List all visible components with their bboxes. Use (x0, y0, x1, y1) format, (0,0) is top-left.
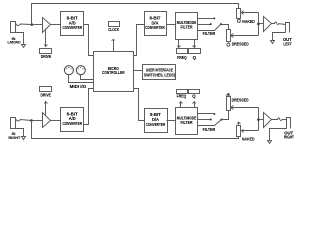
potentiometer DRESSED (top) (227, 30, 249, 47)
block U5 USER INTERFACE SWITCHES LEDS (143, 65, 176, 80)
wire ADC2 to micro (84, 89, 94, 125)
block U2 MICRO CONTROLLER (94, 52, 134, 92)
op-amp A1 (input amp L) (43, 18, 51, 33)
wire DAC1 to filter1 (167, 24, 176, 26)
block U4 MULTIMODE FILTER (top) (176, 13, 198, 40)
wire DAC2 to filter2 (167, 120, 176, 122)
potentiometer DRESSED (bottom) (226, 93, 249, 111)
connector MIDI DIN 1 (64, 66, 73, 75)
wire J1 to amp (32, 24, 43, 26)
svg-text:CONVERTER: CONVERTER (145, 25, 165, 30)
wire DRESSED2 wiper (231, 106, 259, 110)
wire A4 to jack with break (272, 118, 287, 121)
wire A2 to jack with break (272, 22, 286, 25)
wire micro to user interface (134, 70, 143, 72)
wire J4 sleeve (270, 129, 287, 141)
node mix bottom (257, 118, 260, 121)
svg-text:FILTER: FILTER (181, 25, 194, 30)
wire micro to DAC1 (134, 25, 145, 56)
ground J1 (22, 45, 26, 48)
wire MIDI2 to micro (81, 75, 94, 80)
block U8 MULTIMODE FILTER (bottom) (176, 108, 198, 135)
wire mix bus bottom (258, 108, 260, 131)
ground J3 (22, 137, 26, 140)
op-amp A4 (output amp R) (264, 113, 272, 128)
wire DRESSED1 wiper (231, 34, 259, 38)
svg-text:RIGHT: RIGHT (8, 136, 21, 140)
wire S2 pole to DRESSED pot (222, 111, 229, 120)
wire bus to amp (259, 23, 264, 25)
jack J3 IN RIGHT (8, 118, 31, 140)
svg-text:Q: Q (193, 55, 197, 60)
potentiometer DRIVE (bottom) (40, 87, 52, 98)
wire J3 sleeve (16, 129, 24, 137)
switch S1 FILTER select (top) (198, 17, 223, 36)
op-amp A2 (output amp L) (264, 17, 272, 32)
svg-text:NAKED: NAKED (242, 137, 255, 142)
wire bus to amp bottom (259, 119, 264, 121)
wire filter1 to FREQ pot (178, 40, 181, 48)
wire A1 to ADC1 (51, 24, 61, 26)
jack J1 IN L/MONO (8, 22, 32, 45)
svg-text:Q: Q (192, 93, 196, 98)
wire A1 to DRIVE pot (45, 29, 48, 47)
svg-text:CLOCK: CLOCK (108, 27, 120, 32)
svg-text:FILTER: FILTER (203, 127, 216, 132)
switch S2 FILTER select (bottom) (198, 113, 223, 132)
potentiometer Q (top) (189, 49, 201, 61)
block U6 8-BIT A/D CONVERTER (bottom) (61, 108, 84, 132)
jack J2 OUT LEFT (283, 23, 292, 47)
svg-text:FILTER: FILTER (203, 31, 216, 36)
node A (input junction, top) (31, 23, 34, 26)
wire A3 to DRIVE pot bottom (45, 102, 48, 116)
svg-text:CONVERTER: CONVERTER (146, 122, 166, 127)
wire filter2 to Q pot (193, 102, 196, 108)
wire dry bypass top (32, 4, 239, 25)
svg-text:CONVERTER: CONVERTER (62, 25, 82, 30)
op-amp A3 (input amp R) (43, 113, 51, 128)
potentiometer DRIVE (top) (40, 49, 52, 60)
node mix top (257, 23, 260, 26)
wire A3 to ADC2 (51, 120, 61, 122)
svg-text:RIGHT: RIGHT (284, 135, 294, 140)
svg-text:DRESSED: DRESSED (232, 42, 249, 47)
potentiometer Q (bottom) (189, 90, 200, 99)
svg-text:CONTROLLER: CONTROLLER (102, 70, 125, 75)
wire mix bus top (258, 13, 260, 36)
wire J2 sleeve (273, 33, 286, 41)
wire micro to DAC2 (134, 89, 145, 121)
block U3 8-BIT D/A CONVERTER (top) (145, 12, 167, 36)
wire ADC1 to microcontroller (84, 25, 94, 56)
wire NAKED1 wiper (242, 11, 259, 15)
potentiometer FREQ (top) (177, 49, 188, 61)
connector MIDI DIN 2 (76, 66, 85, 75)
svg-text:L/MONO: L/MONO (8, 41, 21, 45)
wire J3 to amp (32, 120, 43, 122)
wire filter2 to FREQ pot (180, 102, 183, 108)
svg-text:SWITCHES, LEDS): SWITCHES, LEDS) (144, 72, 175, 77)
wire S1 pole to DRESSED pot (221, 25, 229, 30)
ground J2 (271, 41, 275, 44)
wire MIDI1 to micro (69, 75, 94, 83)
svg-text:CONVERTER: CONVERTER (62, 121, 82, 126)
potentiometer NAKED (bottom) (237, 122, 255, 142)
wire clock to micro (112, 40, 115, 52)
ground J4 (268, 141, 272, 144)
wire filter1 to Q pot (193, 40, 196, 48)
wire J1 sleeve (16, 33, 24, 45)
wire NAKED2 wiper (242, 130, 259, 133)
svg-text:FREQ: FREQ (177, 55, 187, 60)
node B (input junction, bottom) (30, 119, 33, 122)
svg-text:FREQ: FREQ (177, 93, 187, 98)
svg-text:NAKED: NAKED (242, 19, 255, 24)
svg-text:DRIVE: DRIVE (40, 92, 51, 97)
svg-text:MIDI I/O: MIDI I/O (70, 84, 87, 89)
potentiometer NAKED (top) (237, 9, 255, 24)
potentiometer FREQ (bottom) (177, 90, 188, 99)
wire dry bypass bottom (32, 121, 239, 139)
block U1 8-BIT A/D CONVERTER (top) (61, 12, 84, 36)
svg-text:FILTER: FILTER (181, 120, 194, 125)
svg-text:DRESSED: DRESSED (232, 98, 249, 103)
svg-text:DRIVE: DRIVE (41, 54, 52, 59)
svg-text:LEFT: LEFT (283, 42, 292, 47)
block CLOCK (108, 22, 120, 32)
jack J4 OUT RIGHT (284, 118, 294, 140)
block U7 8-BIT D/A CONVERTER (bottom) (145, 109, 168, 133)
